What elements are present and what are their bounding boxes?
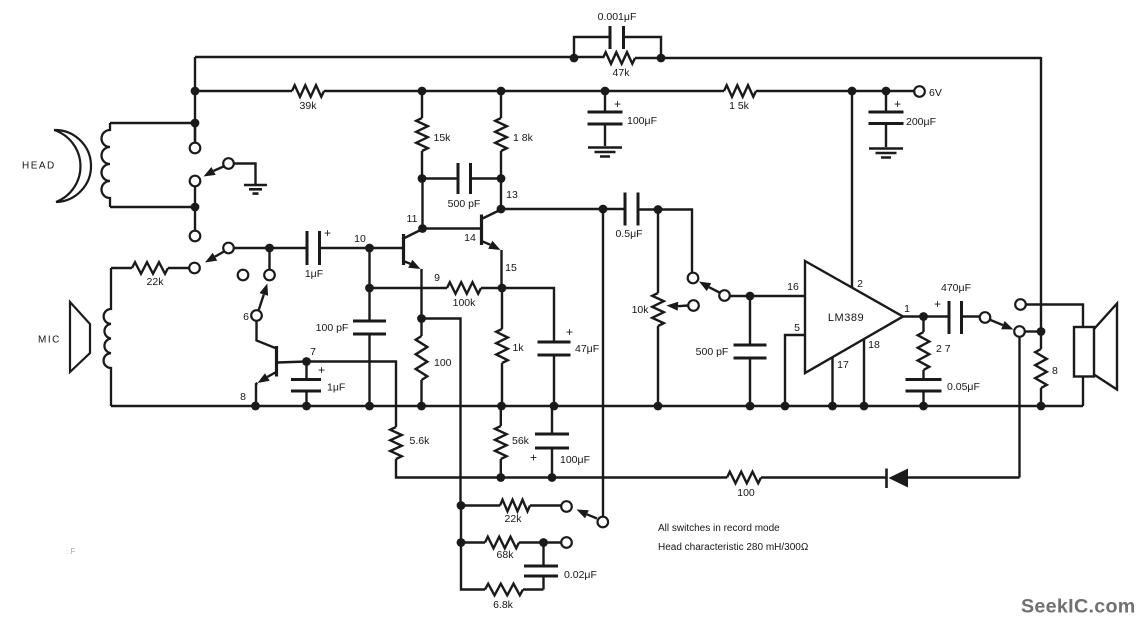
svg-text:10k: 10k (632, 304, 650, 316)
switch S5 pole (980, 312, 991, 323)
svg-text:+: + (934, 297, 941, 311)
wire 100k row (370, 287, 503, 289)
wire supply rail 6V (195, 90, 914, 92)
capacitor C 0.5uF (625, 193, 638, 226)
junction 22k-b left (457, 501, 466, 510)
svg-text:MIC: MIC (38, 335, 61, 346)
resistor 47k (feedback) (603, 52, 635, 64)
wire S1 pole down (194, 187, 196, 231)
switch S4 contact (688, 273, 699, 284)
resistor R 1.8k (495, 118, 507, 151)
switch S5 speaker contact (1015, 299, 1026, 310)
wire common rail (111, 405, 1083, 407)
ground under 200uF (869, 149, 903, 158)
resistor R 68k (485, 537, 519, 549)
terminal head jack lower (190, 231, 201, 242)
terminal 6V (914, 86, 925, 97)
wire pin 5 (785, 335, 805, 406)
junction rail 100uF top (601, 87, 610, 96)
ground at S1 (244, 185, 267, 194)
junction 0.5uF left (599, 205, 608, 214)
resistor R 22k (eq) (500, 500, 530, 512)
switch S1 wiper arrow (214, 167, 224, 171)
junction 100uF-b bottom (548, 473, 557, 482)
junction 8ohm bottom rail (1037, 402, 1046, 411)
diode D1 (889, 469, 909, 488)
svg-text:100 pF: 100 pF (316, 322, 349, 334)
svg-text:68k: 68k (497, 549, 515, 561)
svg-text:6V: 6V (929, 87, 942, 99)
svg-text:+: + (566, 325, 573, 339)
junction head top (191, 119, 200, 128)
switch S6 contact (561, 501, 572, 512)
wire pin 17 (831, 358, 833, 407)
resistor R 8 (1035, 349, 1047, 388)
wire pin1 out (903, 315, 980, 317)
svg-text:100μF: 100μF (560, 454, 590, 466)
switch S3 wiper arrow (259, 295, 264, 310)
inductor head coil (102, 123, 111, 207)
wire 68k row (461, 541, 562, 543)
transistor Q2 emitter arrow (267, 372, 277, 378)
junction 15k bottom (418, 174, 427, 183)
junction rail 15k top (418, 87, 427, 96)
capacitor C 100uF (bootstrap) (535, 434, 569, 448)
svg-text:0.05μF: 0.05μF (947, 381, 980, 393)
svg-text:100: 100 (737, 487, 755, 499)
svg-text:17: 17 (837, 359, 849, 371)
wire 1.8k leads (500, 91, 502, 209)
switch S6 pole (598, 517, 609, 528)
junction node input (265, 244, 274, 253)
svg-text:+: + (324, 226, 331, 240)
wire 22k-b row (461, 504, 561, 506)
icon mic cone (70, 302, 90, 372)
icon head crescent (54, 130, 91, 202)
svg-text:LM389: LM389 (828, 312, 864, 324)
transistor Q2 collector lead (278, 362, 307, 363)
switch S1 contact (223, 158, 234, 169)
svg-text:1μF: 1μF (327, 382, 345, 394)
svg-text:13: 13 (506, 189, 518, 201)
op-amp U1 LM389 (805, 261, 903, 373)
wire node to 1uF (270, 247, 404, 249)
junction rail pin2 line (848, 87, 857, 96)
wire head jack stub (194, 123, 196, 143)
wire pin 2 to supply (851, 91, 853, 287)
terminal head jack upper (190, 143, 201, 154)
switch S3 pole (node 6) (251, 310, 262, 321)
junction pot bottom rail (654, 402, 663, 411)
junction output node (919, 312, 928, 321)
svg-text:SeekIC.com: SeekIC.com (1021, 596, 1136, 618)
switch S6 wiper arrow (587, 514, 597, 518)
wire node down to S3 contact (268, 248, 270, 270)
svg-text:+: + (894, 97, 901, 111)
transistor Q3 collector lead (483, 210, 501, 219)
resistor R 6.8k (485, 584, 523, 596)
transistor Q2 base bar (275, 346, 278, 377)
capacitor C 0.001uF (610, 26, 624, 49)
wire S4 pole to pin16 (730, 295, 805, 297)
junction pot top (654, 205, 663, 214)
wire Q1 emitter down (420, 269, 422, 319)
junction node 11 (418, 224, 427, 233)
svg-text:100μF: 100μF (627, 115, 657, 127)
svg-text:200μF: 200μF (906, 116, 936, 128)
wire speaker top (1026, 305, 1083, 328)
resistor R 5.6k (390, 427, 402, 459)
switch S1 pole (190, 176, 201, 187)
svg-text:22k: 22k (505, 513, 523, 525)
svg-text:16: 16 (787, 281, 799, 293)
svg-text:56k: 56k (512, 435, 530, 447)
junction pin18 rail (860, 402, 869, 411)
wire node7 right and down (307, 362, 501, 478)
svg-text:1: 1 (904, 303, 910, 315)
wire 500pF top leads (422, 177, 501, 179)
wire head bottom (110, 206, 195, 208)
junction rail left (191, 87, 200, 96)
svg-text:6: 6 (243, 311, 249, 323)
wire 100pF leads (368, 288, 370, 406)
resistor R 22k (mic) (132, 262, 168, 274)
wire node10 down (368, 248, 370, 288)
svg-text:39k: 39k (300, 100, 318, 112)
resistor R 39k (292, 85, 324, 97)
junction 100 bottom rail (417, 402, 426, 411)
wire emitter node right (422, 319, 461, 506)
svg-text:0.001μF: 0.001μF (598, 11, 637, 23)
svg-text:5.6k: 5.6k (410, 435, 431, 447)
wire node6 to Q2 base (257, 321, 277, 349)
switch S5 contact (1014, 326, 1025, 337)
wire mic top to 22k (111, 267, 189, 269)
capacitor C 100pF (353, 321, 386, 334)
capacitor C 500pF (interstage) (458, 163, 471, 194)
svg-text:2: 2 (857, 278, 863, 290)
resistor R 100 (emitter) (416, 336, 428, 380)
svg-text:1k: 1k (513, 342, 525, 354)
svg-text:0.5μF: 0.5μF (615, 228, 642, 240)
speaker horn (1094, 304, 1117, 390)
svg-text:6.8k: 6.8k (493, 599, 514, 611)
resistor R 56k (495, 426, 507, 459)
junction 500pF-b top (746, 292, 755, 301)
junction pin17 rail (828, 402, 837, 411)
wire 15k leads (421, 91, 423, 179)
speaker frame (1074, 327, 1094, 377)
capacitor C 470uF (949, 301, 962, 334)
svg-text:14: 14 (464, 232, 476, 244)
junction rail 200uF top (882, 87, 891, 96)
wire node11 row (423, 227, 482, 229)
junction pin5 rail (781, 402, 790, 411)
junction 68k left (457, 538, 466, 547)
svg-text:100k: 100k (453, 297, 477, 309)
wire diode to switch contact (1018, 337, 1020, 478)
junction 47uF bottom rail (550, 402, 559, 411)
svg-text:47k: 47k (613, 67, 631, 79)
junction node10 lower (365, 284, 374, 293)
transistor Q3 base bar (node 14) (480, 215, 483, 246)
wire Q3 emitter down (node 15) (500, 250, 502, 288)
wire 8ohm leads (1040, 332, 1042, 407)
junction 68k right (539, 538, 548, 547)
wire contact to 8ohm node (1025, 330, 1041, 332)
svg-text:: F: : F (66, 547, 75, 556)
svg-text:11: 11 (407, 213, 418, 225)
wire 100 ohm (420, 319, 422, 407)
svg-text:10: 10 (354, 233, 366, 245)
wire top feedback rail (node A) (195, 57, 1041, 58)
svg-text:470μF: 470μF (941, 282, 971, 294)
wire 0.02uF leads (542, 543, 544, 590)
svg-text:8: 8 (1052, 365, 1058, 377)
junction emitter/100 node (417, 314, 426, 323)
svg-text:+: + (530, 451, 537, 465)
wire node13 row (501, 209, 692, 273)
transistor Q3 emitter arrow (483, 242, 491, 245)
wire 200uF cap lead (885, 91, 887, 147)
wire speaker bottom (1082, 377, 1084, 407)
svg-text:500 pF: 500 pF (448, 198, 481, 210)
svg-text:500 pF: 500 pF (696, 346, 729, 358)
resistor R 10k pot (652, 293, 664, 326)
resistor R 1.5k (724, 85, 756, 97)
terminal unused contact (238, 270, 249, 281)
wire pot leads (657, 210, 659, 407)
junction 1k bottom rail (497, 402, 506, 411)
junction zobel rail (919, 402, 928, 411)
wire eq left leg (461, 506, 544, 590)
wire lower row (501, 476, 1020, 478)
wire 1k leads (501, 288, 503, 406)
svg-text:18: 18 (868, 339, 880, 351)
junction rail 1.8k top (497, 87, 506, 96)
wire 56k leads (500, 406, 502, 478)
junction node 8 (251, 402, 260, 411)
capacitor C 0.02uF (524, 566, 558, 576)
svg-text:Head characteristic 280 mH/300: Head characteristic 280 mH/300Ω (658, 542, 809, 553)
svg-text:1μF: 1μF (305, 268, 323, 280)
resistor R 100 (feedback) (727, 472, 761, 484)
junction 100pF bottom rail (365, 402, 374, 411)
svg-text:15k: 15k (434, 132, 452, 144)
capacitor C 0.05uF (906, 380, 942, 392)
wire 100uF cap lead (604, 91, 606, 146)
wire node11 up (421, 179, 423, 229)
wire left vertical from top rail (194, 57, 196, 143)
svg-text:0.02μF: 0.02μF (564, 569, 597, 581)
junction bypass right (657, 54, 666, 63)
svg-text:1 5k: 1 5k (729, 100, 750, 112)
capacitor C 47uF (538, 342, 571, 355)
junction node 15 (498, 284, 507, 293)
junction bypass left (570, 54, 579, 63)
svg-text:2 7: 2 7 (936, 343, 951, 355)
svg-text:15: 15 (505, 262, 517, 274)
wire head top (110, 122, 195, 124)
pot wiper contact (688, 300, 699, 311)
svg-text:22k: 22k (147, 276, 165, 288)
wire Q2 emitter to rail (256, 383, 258, 406)
wire 0.001uF bypass loop (574, 37, 661, 58)
junction 1.8k bottom (497, 174, 506, 183)
junction 8ohm top (1037, 327, 1046, 336)
junction 500pF-b bottom rail (746, 402, 755, 411)
wire S2 contact to node (234, 247, 270, 249)
capacitor C 200uF (869, 112, 904, 124)
junction head bottom (191, 203, 200, 212)
ground under 100uF (588, 148, 622, 157)
transistor Q1 emitter arrow (405, 262, 411, 264)
switch S2 contact (223, 243, 234, 254)
switch S4 wiper arrow (709, 287, 720, 292)
pot wiper arrow (678, 304, 688, 307)
switch S5 wiper arrow (991, 320, 1003, 325)
svg-text:5: 5 (794, 322, 800, 334)
svg-text:+: + (318, 363, 325, 377)
wire node15 to 47uF (502, 288, 554, 406)
switch S2 pole (189, 263, 200, 274)
switch S3 contact (264, 270, 275, 281)
svg-text:HEAD: HEAD (22, 161, 56, 172)
svg-text:1 8k: 1 8k (513, 132, 534, 144)
transistor Q1 base bar (node 11) (402, 234, 405, 265)
capacitor C 1uF (emitter-side) (291, 380, 321, 392)
capacitor C 100uF (supply) (588, 112, 623, 124)
switch S2 wiper arrow (215, 252, 224, 257)
wire 100uF-b leads (551, 406, 553, 478)
junction 56k bottom (496, 473, 505, 482)
resistor R 15k (416, 118, 428, 151)
wire record line down (602, 209, 604, 517)
svg-text:100: 100 (434, 357, 452, 369)
wire pin 18 (863, 339, 865, 406)
capacitor C 1uF (input) (307, 231, 320, 265)
capacitor C 500pF (input filter) (734, 345, 767, 358)
wire 2.7 leads (922, 317, 924, 407)
svg-text:7: 7 (310, 346, 316, 358)
resistor R 1k (496, 329, 508, 363)
junction node 10 (365, 244, 374, 253)
transistor Q1 collector lead (405, 230, 422, 239)
junction node 13 (497, 205, 506, 214)
junction node 7 (302, 357, 311, 366)
switch S4 pole (719, 290, 730, 301)
svg-text:47μF: 47μF (575, 343, 599, 355)
terminal 68k open (561, 537, 572, 548)
wire node7 to cap (305, 362, 307, 407)
wire 500pF-b leads (749, 296, 751, 406)
svg-text:9: 9 (434, 272, 440, 284)
svg-text:All switches in record mode: All switches in record mode (658, 523, 780, 534)
inductor mic coil (104, 268, 111, 406)
svg-text:+: + (614, 97, 621, 111)
wire S1 contact to ground (234, 164, 256, 185)
resistor R 100k (447, 282, 481, 294)
junction 1uF2 bottom (302, 402, 311, 411)
svg-text:8: 8 (240, 391, 246, 403)
resistor R 2.7 (918, 332, 930, 370)
wire right feedback drop (1040, 57, 1042, 332)
